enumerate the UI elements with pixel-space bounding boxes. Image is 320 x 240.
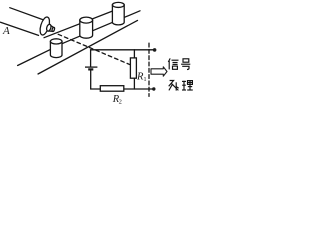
text 号 (signal char 2) xyxy=(181,59,190,70)
circuit bottom wire xyxy=(91,88,154,90)
node dot bottom xyxy=(152,87,155,90)
resistor R1 wires xyxy=(133,50,135,58)
resistor R1 box xyxy=(130,58,136,78)
block arrow to signal processing xyxy=(151,67,167,76)
text 理 (process char 2) xyxy=(182,81,193,90)
node dot top xyxy=(153,48,157,52)
cylinder workpiece 3 xyxy=(112,2,124,25)
cylinder workpiece 2 xyxy=(80,17,93,38)
conveyor near edge line xyxy=(38,20,138,74)
text 处 (process char 1) xyxy=(169,81,179,91)
dashed vertical partition line xyxy=(148,43,150,96)
sensor probe A body xyxy=(10,8,46,21)
resistor R2 box xyxy=(100,86,124,92)
conveyor far edge line xyxy=(44,8,120,38)
dashed sensing line from probe tip to R1 xyxy=(58,34,130,65)
sensor probe A tip electrode xyxy=(46,24,55,32)
conveyor middle edge line xyxy=(18,11,140,66)
battery positive plate xyxy=(85,66,97,68)
svg-text:A: A xyxy=(2,25,10,37)
sensor probe A end cap xyxy=(38,16,51,36)
cylinder workpiece 1 xyxy=(50,39,62,58)
battery negative plate xyxy=(88,68,93,70)
text 信 (signal char 1) xyxy=(168,58,178,69)
circuit left wire below battery xyxy=(90,69,92,89)
circuit top wire xyxy=(91,50,155,67)
